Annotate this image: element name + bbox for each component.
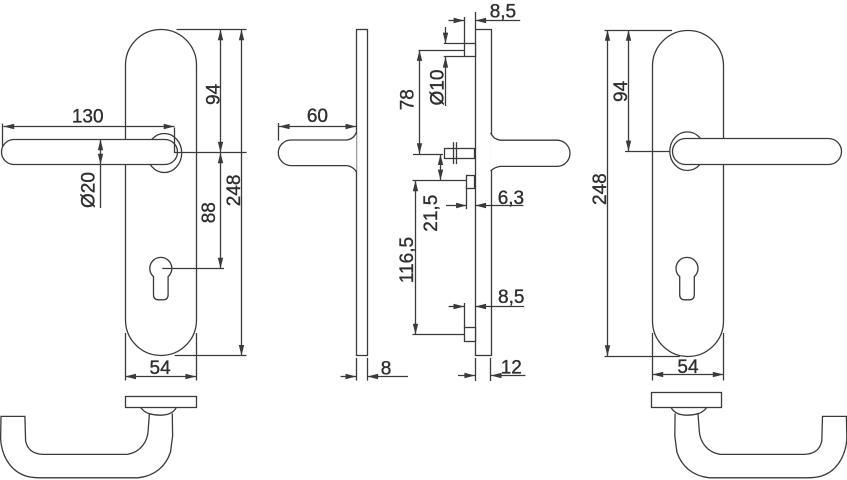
extension line left end of side handle <box>278 123 280 141</box>
top screw axis extension line <box>419 50 465 52</box>
arrowhead 248 bottom (left view) <box>239 345 244 356</box>
svg-text:54: 54 <box>677 357 699 378</box>
extension line left end of lever <box>2 124 4 147</box>
arrowhead 60 right <box>346 124 357 129</box>
svg-text:94: 94 <box>611 80 632 102</box>
arrowhead 130 right <box>164 124 175 129</box>
plate side view bar (screw side) <box>476 30 492 356</box>
arrowhead 8 left <box>346 374 357 379</box>
door handle top view (bottom right) <box>671 408 847 478</box>
extension line right end of 130 dim <box>174 128 176 154</box>
svg-text:6,3: 6,3 <box>498 188 524 209</box>
rose disc top view (bottom left) <box>126 397 197 408</box>
dimension line 12 right segment <box>491 375 526 377</box>
spindle axis extension line <box>413 154 443 156</box>
svg-text:94: 94 <box>203 83 224 105</box>
arrowhead 94 top (right view) <box>626 30 631 41</box>
extension line plate top (left view) <box>177 29 247 31</box>
arrowhead 94 top (left view) <box>218 30 223 41</box>
arrowhead Ø20 up <box>98 139 103 150</box>
dimension line 78 <box>419 50 421 154</box>
extension line plate top (right view) <box>605 30 673 32</box>
arrowhead 248 top (left view) <box>239 30 244 41</box>
cylinder fixing bolt <box>467 176 475 189</box>
dimension line 6,3 right segment <box>475 205 523 207</box>
backplate front view (left) <box>126 30 197 356</box>
svg-text:8: 8 <box>381 358 392 379</box>
svg-text:248: 248 <box>224 174 245 206</box>
arrowhead 94 bottom (left view) <box>218 142 223 153</box>
extension line screw end (mid 8,5) <box>464 303 466 328</box>
extension line plate bottom (right view) <box>605 356 680 358</box>
dimension line 130 <box>3 126 174 128</box>
extension line keyhole axis (left view) <box>162 268 224 270</box>
screw bottom edge extension <box>444 56 465 58</box>
extension line screw end (top 8,5) <box>464 17 466 43</box>
arrowhead 60 left <box>279 124 290 129</box>
extension line plate bottom (left view) <box>175 355 247 357</box>
svg-text:130: 130 <box>72 106 104 127</box>
extension line plate edge above top <box>475 12 477 30</box>
dimension line 116,5 <box>415 180 417 334</box>
extension line 54 right (left view) <box>196 333 198 381</box>
dimension line 248 (left view) <box>241 30 243 356</box>
arrowhead 54 left (left view) <box>125 374 136 379</box>
arrowhead 54 right (left view) <box>185 374 196 379</box>
svg-text:12: 12 <box>501 357 522 378</box>
svg-text:54: 54 <box>150 358 172 379</box>
arrowhead 21,5 top <box>438 154 443 165</box>
extension line 54 right (right view) <box>723 333 725 381</box>
dimension line 94 (right view) <box>628 30 630 151</box>
arrowhead 21,5 bottom <box>438 170 443 181</box>
arrowhead 6,3 right <box>475 203 486 208</box>
dimension line 94 (left view) <box>220 30 222 153</box>
lever handle (right view) <box>673 139 842 165</box>
extension line 8 right <box>367 358 369 381</box>
euro profile keyhole (left view) <box>150 257 172 299</box>
arrowhead 116,5 top <box>413 180 418 191</box>
dimension line 8,5 mid left segment <box>449 306 465 308</box>
spindle clip tick 2 <box>456 142 458 164</box>
extension line 54 left (right view) <box>652 333 654 381</box>
svg-text:Ø10: Ø10 <box>428 70 449 106</box>
handle rose hub circle (right view) <box>670 132 705 171</box>
arrowhead 88 bottom <box>218 258 223 269</box>
lever handle (left view) <box>2 140 178 165</box>
arrowhead 12 left <box>464 373 475 378</box>
svg-text:248: 248 <box>590 173 611 205</box>
arrowhead 6,3 left <box>456 203 467 208</box>
extension line 12 right <box>490 358 492 381</box>
svg-text:116,5: 116,5 <box>397 237 418 283</box>
rose disc top view (bottom right) <box>652 393 722 408</box>
arrowhead 8,5 mid right <box>475 304 486 309</box>
handle side view with neck flare <box>278 132 356 172</box>
dimension line 8,5 top left segment <box>449 20 465 22</box>
svg-text:78: 78 <box>398 89 419 110</box>
bottom fixing screw <box>465 328 476 342</box>
arrowhead 78 bottom <box>417 143 422 154</box>
arrowhead 78 top <box>417 50 422 61</box>
dimension line 60 <box>279 126 357 128</box>
spindle clip tick 1 <box>453 142 455 164</box>
extension line lever axis (right view) <box>625 151 670 153</box>
extension line lever axis (left view) <box>175 152 247 154</box>
dimension line 21,5 <box>440 154 442 180</box>
arrowhead 8,5 top right <box>475 18 486 23</box>
extension line 12 left <box>475 358 477 381</box>
arrowhead 8,5 mid left <box>454 304 465 309</box>
arrowhead 8,5 top left <box>454 18 465 23</box>
arrowhead 94 bottom (right view) <box>626 141 631 152</box>
arrowhead Ø10 down <box>443 33 448 44</box>
arrowhead Ø10 up <box>443 57 448 68</box>
backplate front view (right) <box>653 31 724 357</box>
door handle top view (bottom left) <box>1 408 177 478</box>
svg-text:Ø20: Ø20 <box>79 172 100 208</box>
dimension line Ø20 <box>100 139 102 208</box>
arrowhead 54 right (right view) <box>713 372 724 377</box>
plate side view bar <box>357 30 368 356</box>
arrowhead 8 right <box>367 374 378 379</box>
arrowhead 12 right <box>491 373 502 378</box>
extension line bolt (6,3) <box>466 188 468 209</box>
dimension line 88 <box>220 153 222 269</box>
arrowhead 248 bottom (right view) <box>605 345 610 356</box>
arrowhead 54 left (right view) <box>652 372 663 377</box>
top fixing screw <box>465 44 476 57</box>
dimension line 54 (right view) <box>652 374 723 376</box>
dimension line 248 (right view) <box>607 30 609 356</box>
extension line 54 left (left view) <box>125 333 127 381</box>
dimension line 8 right segment <box>367 376 408 378</box>
dimension line 8 left segment <box>341 376 357 378</box>
dimension line 6,3 left segment <box>446 205 467 207</box>
screw top edge extension <box>444 43 465 45</box>
svg-text:8,5: 8,5 <box>498 287 524 308</box>
arrowhead 248 top (right view) <box>605 30 610 41</box>
arrowhead 130 left <box>3 124 14 129</box>
dimension line 8,5 top right segment <box>475 20 520 22</box>
dimension line 8,5 mid right segment <box>475 306 524 308</box>
arrowhead 88 top <box>218 153 223 164</box>
arrowhead 116,5 bottom <box>413 324 418 335</box>
extension line 8 left <box>356 358 358 381</box>
euro profile keyhole (right view) <box>676 257 698 299</box>
dimension line 12 left segment <box>458 375 475 377</box>
svg-text:21,5: 21,5 <box>421 195 442 232</box>
handle side view pointing right <box>491 133 570 171</box>
svg-text:88: 88 <box>199 202 220 223</box>
arrowhead Ø20 down <box>98 154 103 165</box>
svg-text:8,5: 8,5 <box>490 2 516 23</box>
spindle square stub <box>445 149 475 159</box>
bottom screw axis extension line <box>413 334 465 336</box>
dimension line 54 (left view) <box>125 376 196 378</box>
bolt axis extension line <box>413 180 467 182</box>
svg-text:60: 60 <box>307 106 328 127</box>
handle rose hub circle (left view) <box>147 134 182 173</box>
